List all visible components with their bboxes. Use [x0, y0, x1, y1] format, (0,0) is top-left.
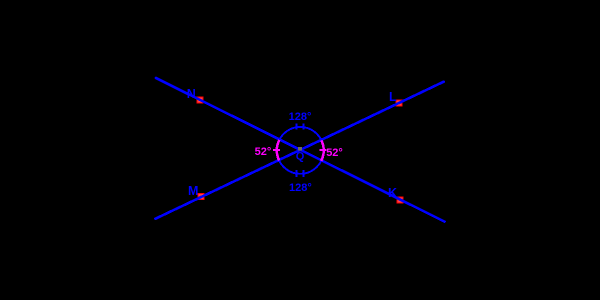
svg-text:L: L: [389, 90, 397, 104]
svg-text:52°: 52°: [255, 146, 272, 158]
svg-text:K: K: [388, 186, 397, 200]
svg-text:128°: 128°: [289, 182, 312, 194]
svg-text:N: N: [187, 87, 196, 101]
svg-text:128°: 128°: [289, 111, 312, 123]
svg-text:52°: 52°: [326, 147, 343, 159]
svg-text:Q: Q: [296, 151, 305, 163]
svg-text:M: M: [188, 184, 198, 198]
